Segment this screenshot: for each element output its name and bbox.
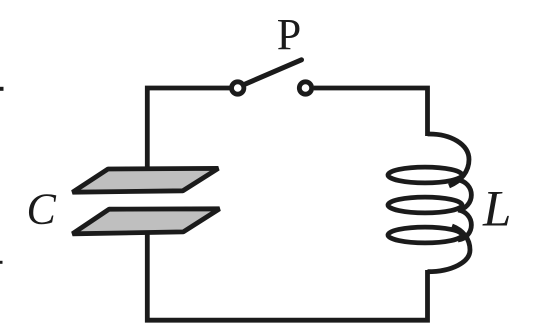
- switch P right contact circle: [299, 82, 311, 94]
- switch P lever: [244, 60, 302, 85]
- edge artifact mark upper-left: [0, 87, 4, 91]
- svg-text:L: L: [482, 181, 511, 237]
- wire top-right segment with right vertical to inductor: [314, 88, 428, 136]
- capacitor C top plate: [73, 168, 219, 192]
- inductor L turn 3: [388, 227, 462, 243]
- inductor L lead-in curve: [428, 134, 470, 186]
- svg-text:C: C: [27, 185, 57, 234]
- inductor L lead-out curve: [428, 226, 471, 272]
- inductor L turn 1: [388, 167, 462, 183]
- inductor L turn 2: [388, 197, 462, 213]
- svg-text:P: P: [277, 10, 301, 59]
- switch P left contact circle: [232, 82, 244, 94]
- inductor L connector arc 1-2: [458, 180, 471, 210]
- inductor L connector arc 2-3: [458, 210, 471, 240]
- edge artifact mark lower-left: [0, 261, 3, 264]
- capacitor C bottom plate: [73, 209, 220, 234]
- wire top-left segment with left vertical to capacitor: [147, 88, 229, 171]
- wire bottom U: left vertical, bottom wire, right vertical: [147, 231, 427, 320]
